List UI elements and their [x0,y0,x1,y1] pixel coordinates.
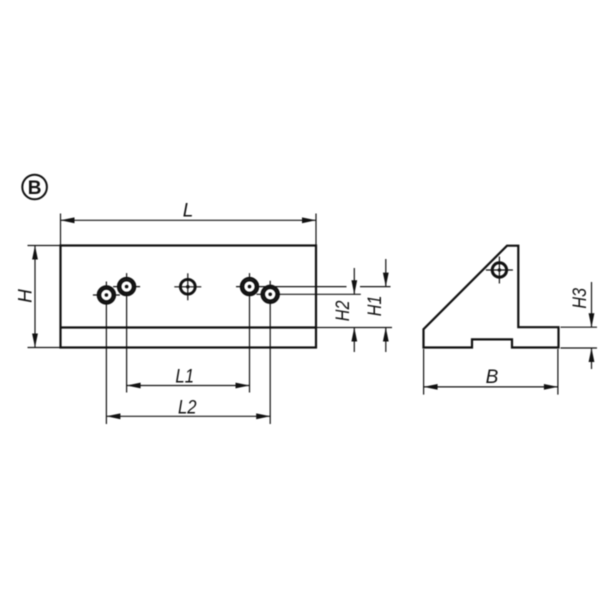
hole 1 (left lower, counterbored) [93,282,120,425]
side view outline [424,246,559,348]
view label circle B [22,175,47,200]
svg-text:H2: H2 [332,300,354,321]
svg-text:L: L [183,201,194,222]
dimension L1 [127,385,250,387]
dimension H3 [561,282,598,369]
svg-text:H1: H1 [364,296,386,317]
leader from hole 5 to H2 [257,293,361,295]
hole 4 (right upper, counterbored) [241,273,258,392]
dimension H [28,246,61,348]
svg-text:H: H [15,289,36,303]
hole 3 (center) [174,273,201,300]
dimension L2 [106,415,270,417]
dimension H1 [385,259,387,352]
hole 2 (left upper, counterbored) [113,273,140,392]
svg-text:L1: L1 [175,366,194,387]
dimension B [424,349,558,395]
svg-text:B: B [28,178,42,199]
front view outline [61,246,317,348]
front view step line [61,326,317,328]
hole 5 (right lower, counterbored) [262,281,279,424]
dimension H2 [353,268,355,352]
svg-text:H3: H3 [569,288,591,309]
side view hole [486,257,513,284]
step line extension right [316,327,392,329]
svg-text:B: B [486,367,499,388]
dimension L [61,214,317,246]
leader from hole 4 to H1 [236,286,391,288]
svg-text:L2: L2 [178,396,197,417]
